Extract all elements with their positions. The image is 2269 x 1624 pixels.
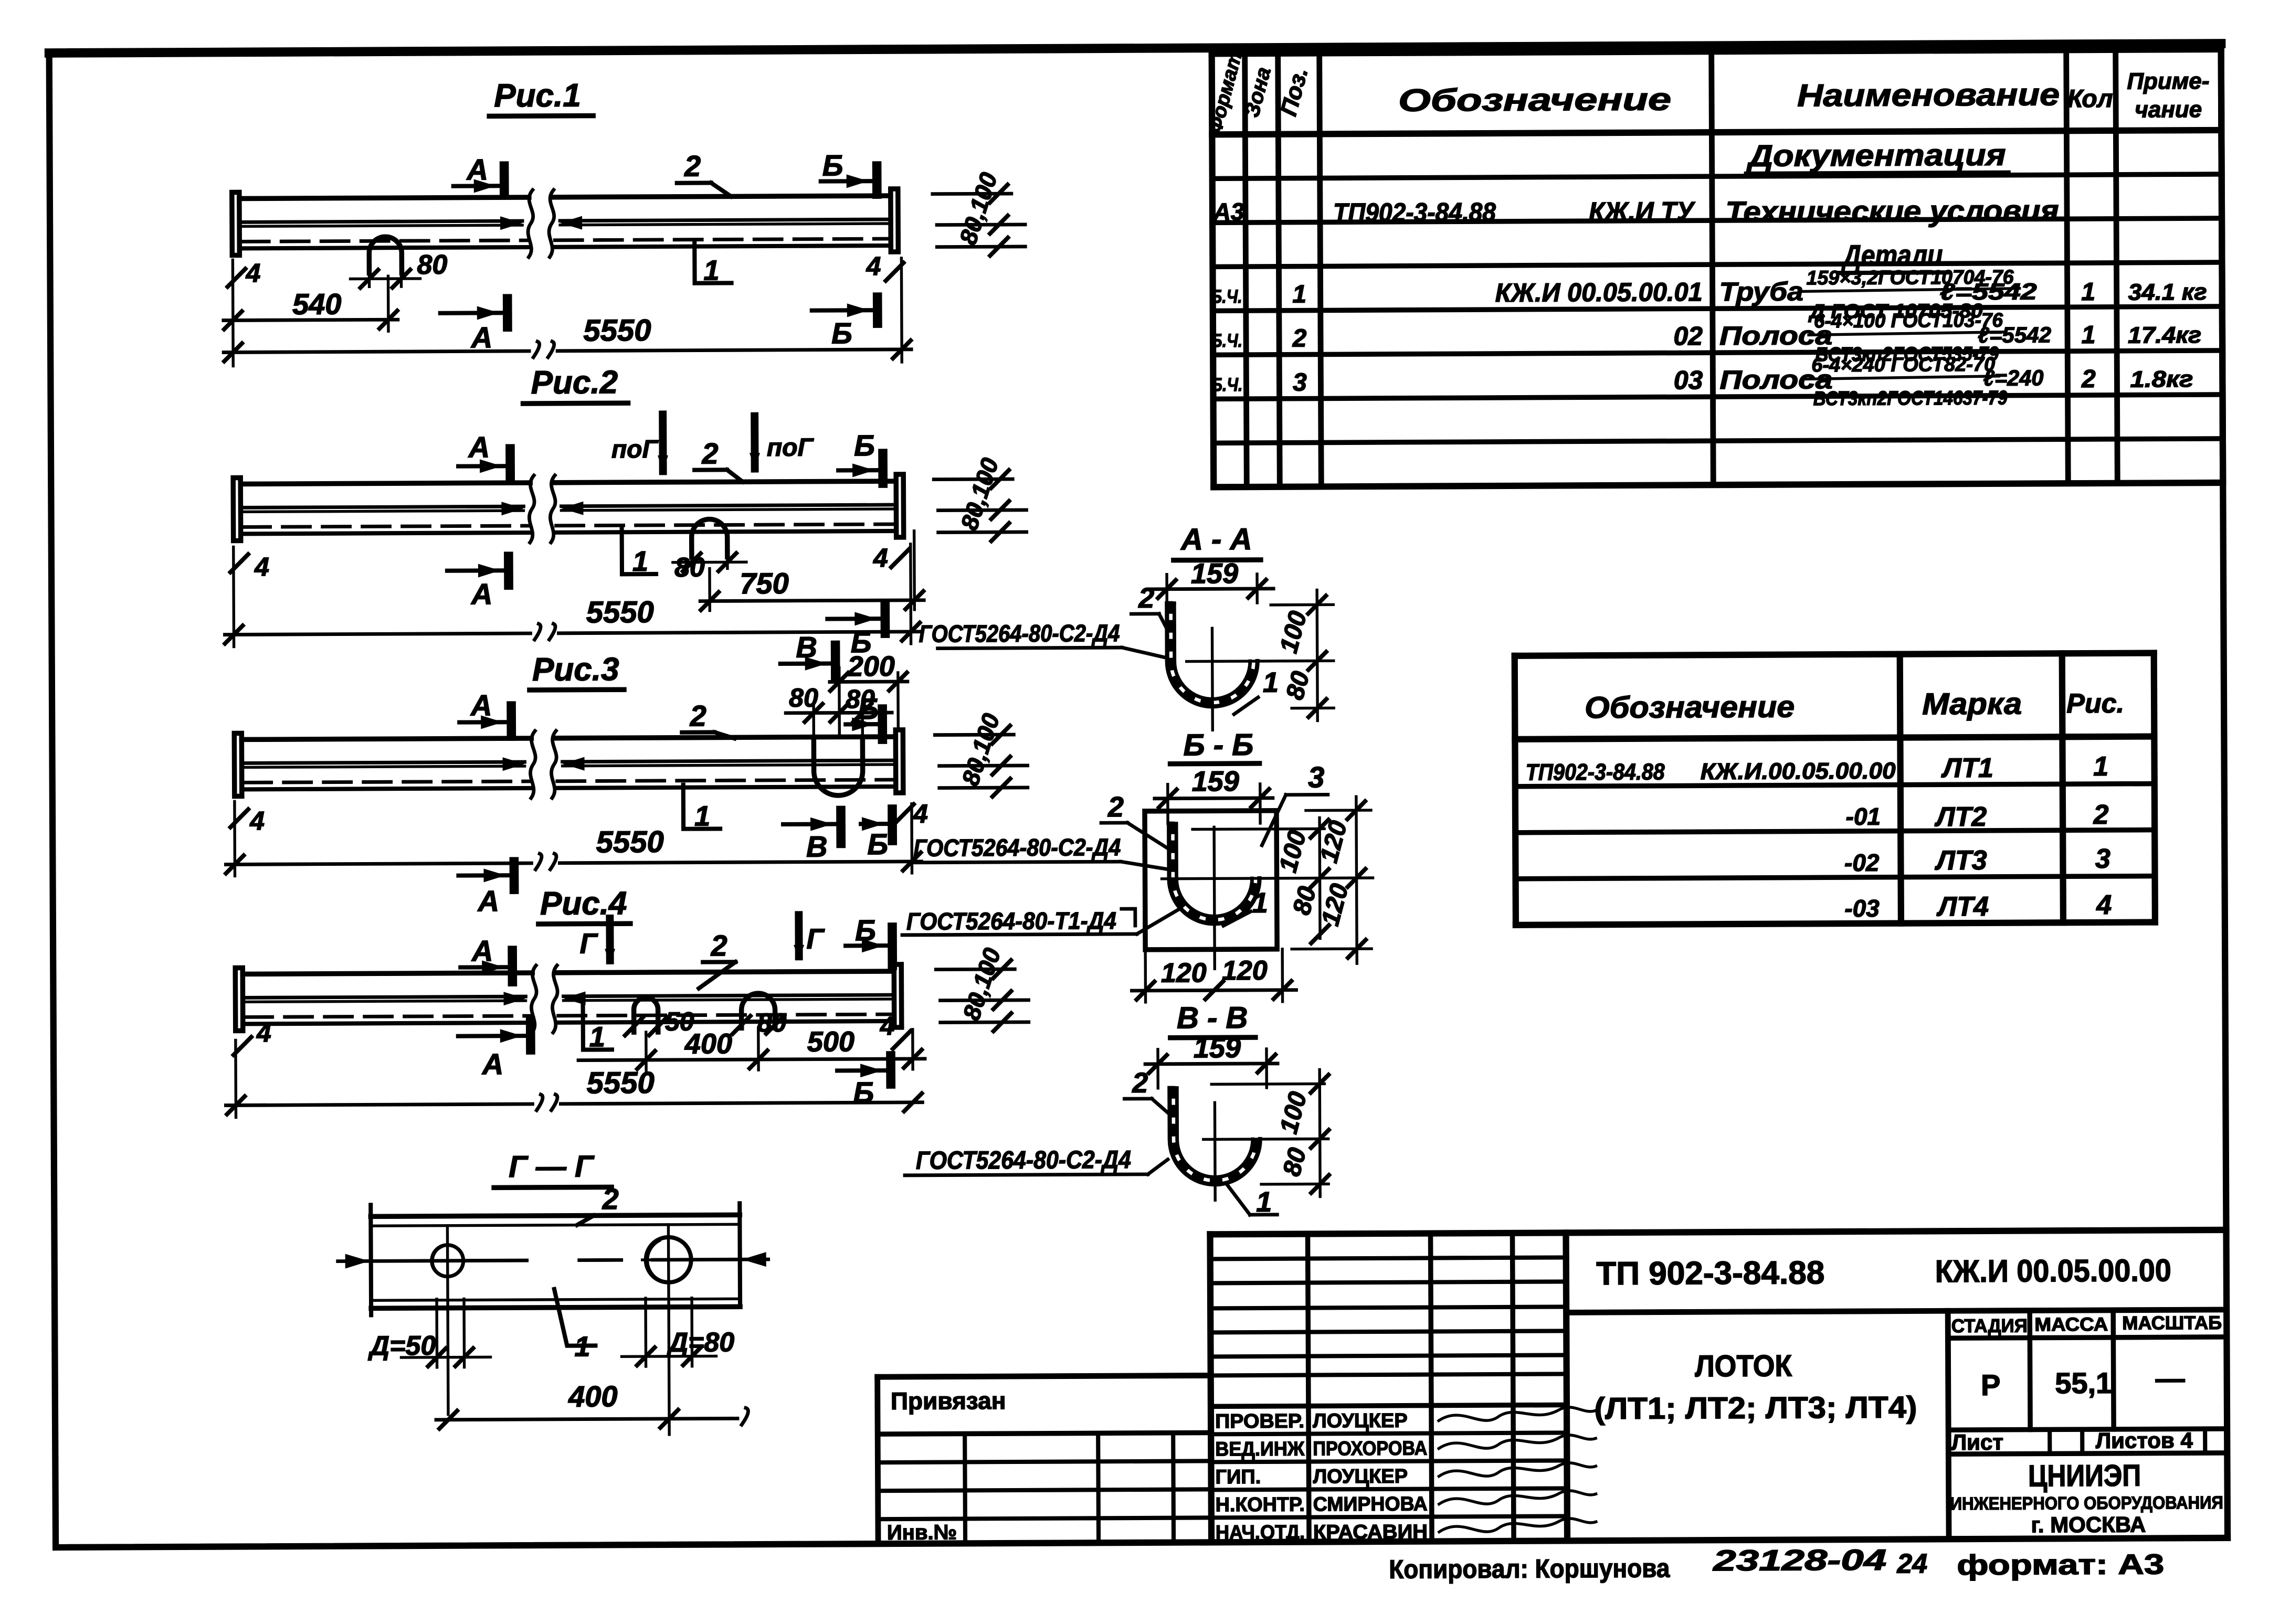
svg-text:А: А [470, 321, 493, 354]
svg-text:Г — Г: Г — Г [509, 1149, 595, 1184]
svg-text:2: 2 [701, 437, 718, 470]
svg-text:Наименование: Наименование [1797, 77, 2060, 113]
svg-text:ТП902-3-84.88: ТП902-3-84.88 [1333, 197, 1496, 227]
svg-text:чание: чание [2135, 97, 2202, 123]
svg-text:-01: -01 [1845, 803, 1881, 830]
svg-text:159: 159 [1194, 1032, 1241, 1064]
svg-text:Рис.4: Рис.4 [540, 885, 627, 922]
svg-text:Листов 4: Листов 4 [2096, 1428, 2193, 1453]
svg-text:КЖ.И.00.05.00.00: КЖ.И.00.05.00.00 [1701, 758, 1896, 785]
svg-text:400: 400 [684, 1028, 732, 1059]
svg-text:2: 2 [1138, 582, 1154, 614]
svg-text:4: 4 [2096, 890, 2112, 920]
svg-text:ПРОХОРОВА: ПРОХОРОВА [1313, 1438, 1427, 1460]
svg-text:ЛОУЦКЕР: ЛОУЦКЕР [1313, 1410, 1408, 1432]
svg-text:1: 1 [574, 1331, 590, 1363]
svg-text:6-4×100 ГОСТ103-76: 6-4×100 ГОСТ103-76 [1814, 310, 2003, 333]
svg-text:Рис.3: Рис.3 [532, 651, 619, 688]
svg-text:-02: -02 [1844, 849, 1880, 876]
svg-text:02: 02 [1673, 321, 1703, 351]
svg-text:2: 2 [601, 1182, 618, 1215]
svg-text:ГОСТ5264-80-Т1-Д4: ГОСТ5264-80-Т1-Д4 [906, 907, 1116, 935]
svg-text:1: 1 [2081, 278, 2095, 306]
svg-text:3: 3 [1293, 369, 1307, 397]
svg-text:80: 80 [674, 553, 705, 583]
svg-text:МАСШТАБ: МАСШТАБ [2122, 1312, 2222, 1334]
svg-text:Инв.№: Инв.№ [887, 1521, 957, 1544]
svg-text:-03: -03 [1844, 895, 1880, 922]
svg-text:Рис.1: Рис.1 [494, 78, 581, 114]
svg-text:КРАСАВИН: КРАСАВИН [1313, 1521, 1428, 1544]
svg-text:(ЛТ1; ЛТ2; ЛТ3; ЛТ4): (ЛТ1; ЛТ2; ЛТ3; ЛТ4) [1594, 1390, 1917, 1426]
svg-text:80: 80 [789, 683, 818, 713]
svg-text:Труба: Труба [1719, 277, 1803, 306]
svg-text:ПРОВЕР.: ПРОВЕР. [1215, 1410, 1304, 1433]
svg-text:ЛТ4: ЛТ4 [1936, 891, 1989, 922]
svg-text:5550: 5550 [596, 825, 664, 859]
svg-text:А: А [466, 153, 488, 186]
svg-text:Б: Б [822, 148, 843, 182]
svg-text:А: А [481, 1047, 504, 1080]
svg-text:24: 24 [1896, 1548, 1927, 1579]
svg-text:1: 1 [2082, 321, 2096, 349]
svg-text:Технические условия: Технические условия [1725, 194, 2059, 228]
svg-text:ТП 902-3-84.88: ТП 902-3-84.88 [1596, 1255, 1824, 1292]
svg-text:ИНЖЕНЕРНОГО ОБОРУДОВАНИЯ: ИНЖЕНЕРНОГО ОБОРУДОВАНИЯ [1950, 1493, 2223, 1514]
svg-text:—: — [2156, 1362, 2185, 1395]
svg-text:34.1 кг: 34.1 кг [2128, 279, 2207, 305]
svg-text:Г: Г [806, 924, 825, 955]
svg-text:Приме-: Приме- [2127, 68, 2209, 94]
svg-text:1: 1 [1292, 281, 1306, 309]
svg-text:Привязан: Привязан [891, 1387, 1006, 1415]
svg-text:Копировал: Коршунова: Копировал: Коршунова [1389, 1554, 1670, 1584]
svg-text:Обозначение: Обозначение [1585, 690, 1795, 725]
svg-text:2: 2 [684, 150, 701, 183]
svg-text:200: 200 [847, 651, 895, 682]
svg-text:2: 2 [1292, 325, 1307, 353]
svg-text:1.8кг: 1.8кг [2130, 366, 2193, 392]
svg-text:Н.КОНТР.: Н.КОНТР. [1216, 1494, 1305, 1516]
svg-text:ℓ=240: ℓ=240 [1983, 365, 2043, 390]
svg-text:400: 400 [568, 1379, 618, 1413]
svg-text:Б.Ч.: Б.Ч. [1211, 374, 1242, 395]
svg-text:120: 120 [1222, 956, 1268, 986]
svg-text:формат: А3: формат: А3 [1957, 1548, 2164, 1581]
svg-text:4: 4 [880, 1011, 895, 1041]
svg-text:Кол: Кол [2067, 85, 2113, 113]
svg-text:1: 1 [589, 1021, 605, 1053]
svg-text:ℓ=5542: ℓ=5542 [1978, 322, 2051, 347]
svg-text:3: 3 [2095, 844, 2110, 874]
svg-text:Р: Р [1981, 1368, 2001, 1402]
svg-text:2: 2 [2093, 800, 2108, 830]
svg-text:ГИП.: ГИП. [1215, 1466, 1261, 1488]
svg-text:ВСТ3кп2ГОСТ14637-79: ВСТ3кп2ГОСТ14637-79 [1813, 387, 2007, 410]
svg-text:2: 2 [2081, 365, 2096, 393]
svg-text:80: 80 [757, 1008, 787, 1037]
svg-text:А: А [468, 430, 490, 463]
svg-text:55,1: 55,1 [2055, 1366, 2112, 1399]
svg-text:А - А: А - А [1180, 522, 1252, 557]
svg-text:1: 1 [694, 801, 710, 832]
svg-text:2: 2 [689, 699, 706, 733]
svg-text:17.4кг: 17.4кг [2128, 322, 2201, 348]
svg-text:СТАДИЯ: СТАДИЯ [1951, 1315, 2028, 1337]
svg-text:03: 03 [1674, 365, 1703, 395]
svg-text:2: 2 [710, 929, 727, 962]
svg-text:Марка: Марка [1922, 687, 2022, 721]
svg-text:159: 159 [1191, 558, 1238, 589]
svg-text:540: 540 [292, 288, 342, 321]
svg-text:1: 1 [1263, 667, 1279, 698]
svg-text:ЛОУЦКЕР: ЛОУЦКЕР [1313, 1466, 1408, 1488]
svg-text:А: А [477, 884, 499, 917]
svg-text:поГ: поГ [611, 436, 659, 463]
svg-text:В: В [796, 631, 817, 664]
svg-text:Б: Б [831, 316, 852, 349]
svg-text:Б - Б: Б - Б [1183, 728, 1253, 762]
svg-text:750: 750 [740, 567, 789, 600]
svg-text:80: 80 [417, 250, 447, 280]
svg-text:КЖ.И 00.05.00.00: КЖ.И 00.05.00.00 [1935, 1253, 2171, 1289]
svg-text:КЖ.И ТУ: КЖ.И ТУ [1589, 196, 1696, 226]
svg-text:ℓ=5542: ℓ=5542 [1940, 279, 2038, 305]
svg-text:КЖ.И 00.05.00.01: КЖ.И 00.05.00.01 [1495, 277, 1703, 307]
svg-text:1: 1 [2093, 751, 2108, 782]
svg-text:1: 1 [1252, 887, 1268, 919]
svg-text:4: 4 [256, 1018, 271, 1047]
svg-text:А: А [471, 934, 493, 967]
svg-text:1: 1 [703, 254, 719, 286]
svg-text:А3: А3 [1212, 198, 1244, 225]
svg-text:Д=80: Д=80 [666, 1327, 734, 1358]
svg-text:ГОСТ5264-80-С2-Д4: ГОСТ5264-80-С2-Д4 [919, 619, 1120, 648]
svg-text:Документация: Документация [1746, 138, 2006, 173]
svg-text:4: 4 [866, 251, 881, 281]
svg-text:Б: Б [867, 827, 888, 861]
svg-text:Обозначение: Обозначение [1398, 82, 1671, 118]
svg-text:Б.Ч.: Б.Ч. [1211, 285, 1242, 307]
svg-text:120: 120 [1161, 958, 1207, 988]
svg-text:МАССА: МАССА [2034, 1313, 2108, 1335]
svg-text:5550: 5550 [587, 1066, 655, 1100]
svg-text:ГОСТ5264-80-С2-Д4: ГОСТ5264-80-С2-Д4 [913, 833, 1121, 862]
svg-text:ЛОТОК: ЛОТОК [1695, 1349, 1792, 1384]
svg-text:Лист: Лист [1951, 1430, 2003, 1455]
svg-text:500: 500 [807, 1026, 854, 1057]
svg-text:3: 3 [1308, 760, 1324, 793]
svg-text:23128-04: 23128-04 [1713, 1543, 1887, 1577]
svg-text:ВЕД.ИНЖ: ВЕД.ИНЖ [1215, 1438, 1305, 1461]
svg-text:ЛТ2: ЛТ2 [1934, 802, 1987, 832]
svg-text:2: 2 [1132, 1067, 1148, 1099]
svg-text:4: 4 [249, 806, 265, 835]
svg-text:В: В [806, 830, 828, 863]
svg-text:г. МОСКВА: г. МОСКВА [2031, 1512, 2146, 1537]
svg-text:5550: 5550 [586, 595, 654, 630]
svg-text:4: 4 [245, 258, 260, 288]
svg-text:НАЧ.ОТД.: НАЧ.ОТД. [1216, 1522, 1305, 1544]
svg-text:В - В: В - В [1177, 1001, 1248, 1035]
svg-text:ЦНИИЭП: ЦНИИЭП [2028, 1459, 2141, 1493]
svg-text:80: 80 [846, 684, 875, 714]
svg-text:ТП902-3-84.88: ТП902-3-84.88 [1526, 759, 1665, 786]
svg-text:Б: Б [855, 914, 876, 947]
svg-text:ЛТ3: ЛТ3 [1934, 845, 1987, 876]
svg-text:Б: Б [854, 429, 875, 462]
svg-text:СМИРНОВА: СМИРНОВА [1313, 1493, 1428, 1516]
svg-text:159: 159 [1192, 766, 1239, 797]
svg-text:А: А [470, 577, 493, 610]
svg-text:5550: 5550 [583, 313, 651, 348]
svg-text:поГ: поГ [767, 434, 815, 462]
svg-text:Б.Ч.: Б.Ч. [1211, 330, 1242, 351]
svg-text:Рис.: Рис. [2066, 688, 2124, 719]
svg-text:А: А [470, 688, 492, 721]
svg-text:1: 1 [632, 546, 648, 577]
svg-text:ГОСТ5264-80-С2-Д4: ГОСТ5264-80-С2-Д4 [916, 1146, 1131, 1175]
svg-text:ЛТ1: ЛТ1 [1940, 753, 1993, 783]
svg-text:4: 4 [873, 543, 888, 572]
svg-text:2: 2 [1107, 791, 1124, 823]
svg-text:Г: Г [579, 928, 598, 959]
svg-text:Рис.2: Рис.2 [531, 364, 618, 401]
svg-text:6-4×240 ГОСТ82-70: 6-4×240 ГОСТ82-70 [1811, 354, 1995, 377]
svg-text:4: 4 [254, 552, 269, 581]
